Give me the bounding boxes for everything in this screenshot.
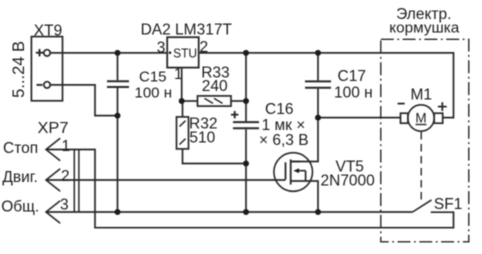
svg-text:3: 3 bbox=[157, 39, 166, 56]
junction dot adj node left bbox=[179, 98, 185, 104]
regulator DA2 box bbox=[167, 37, 199, 67]
capacitor C16 plus sign bbox=[231, 111, 238, 118]
svg-text:240: 240 bbox=[202, 78, 228, 95]
wire R33 to output node bbox=[231, 100, 246, 102]
resistor R32 body bbox=[177, 117, 189, 149]
wire common rail XP7 pin3 to SF1 bbox=[46, 211, 413, 213]
capacitor C16 plates bbox=[233, 122, 259, 128]
svg-text:510: 510 bbox=[189, 129, 215, 146]
capacitor C15 top stub wire bbox=[117, 53, 119, 80]
svg-text:× 6,3 В: × 6,3 В bbox=[259, 132, 309, 149]
svg-text:100 н: 100 н bbox=[334, 85, 373, 102]
junction dot common rail / C16 branch bbox=[243, 209, 249, 215]
svg-text:SF1: SF1 bbox=[434, 196, 462, 213]
cable line b bbox=[78, 150, 80, 213]
svg-text:3: 3 bbox=[60, 196, 69, 213]
capacitor C17 bottom wire to VT5 drain bbox=[291, 89, 318, 162]
svg-text:100 н: 100 н bbox=[135, 84, 172, 101]
svg-text:5...24 В: 5...24 В bbox=[10, 41, 28, 98]
junction dot output rail / C16 branch bbox=[243, 50, 249, 56]
XP7 pin 1 chevron bbox=[46, 138, 60, 161]
svg-text:2: 2 bbox=[61, 168, 70, 185]
svg-text:C17: C17 bbox=[338, 68, 366, 85]
capacitor C17 plates bbox=[305, 81, 331, 87]
junction dot XT9 minus / C15 bbox=[115, 113, 121, 119]
wire motor feed node to M1 left terminal bbox=[318, 117, 401, 119]
switch SF1 arm bbox=[413, 200, 432, 212]
wire output rail DA2 pin2 to motor plus bbox=[199, 53, 454, 118]
motor M1 circle bbox=[408, 105, 434, 131]
M1 left brush block bbox=[401, 113, 408, 123]
svg-text:Общ.: Общ. bbox=[1, 199, 39, 216]
XT9 pin - socket bbox=[44, 82, 50, 88]
VT5 arrowhead bbox=[293, 168, 299, 173]
svg-text:STU: STU bbox=[173, 46, 197, 61]
XT9 pin + socket bbox=[44, 50, 50, 56]
svg-text:M: M bbox=[415, 111, 426, 126]
svg-text:кормушка: кормушка bbox=[389, 21, 460, 37]
junction dot motor feed / C17 bbox=[315, 115, 321, 121]
VT5 drain tap bbox=[291, 161, 300, 163]
svg-text:1: 1 bbox=[62, 138, 71, 155]
wire R32 bottom to C16 node bbox=[183, 149, 247, 164]
VT5 source tap bbox=[291, 181, 318, 212]
XT9 minus sign bbox=[37, 84, 43, 86]
R33 power hatches bbox=[205, 98, 223, 103]
wire DA2 pin1 down bbox=[181, 68, 183, 101]
XT9 plus sign bbox=[36, 49, 43, 56]
wire output rail down to C17 bbox=[317, 53, 319, 81]
capacitor C15 bottom wire to common rail bbox=[117, 88, 119, 212]
junction dot input rail / C15 bbox=[115, 50, 121, 56]
junction dot output rail / C17 branch bbox=[315, 50, 321, 56]
connector XT9 body bbox=[31, 37, 62, 101]
junction dot common rail / C15 branch bbox=[115, 209, 121, 215]
M1 plus sign bbox=[438, 102, 447, 111]
M1 minus sign bbox=[398, 103, 405, 105]
M1 letter underline bbox=[416, 124, 427, 126]
junction dot common rail / VT5 source bbox=[315, 209, 321, 215]
R32 power hatches bbox=[180, 121, 186, 145]
VT5 body arrow bbox=[298, 171, 306, 181]
svg-text:2N7000: 2N7000 bbox=[321, 172, 376, 189]
junction dot R32 / C16 bbox=[243, 161, 249, 167]
svg-text:2: 2 bbox=[200, 39, 209, 56]
DA2 internal pin dot bbox=[169, 51, 172, 54]
transistor VT5 circle bbox=[274, 153, 313, 192]
svg-text:C16: C16 bbox=[265, 101, 293, 118]
capacitor C16 bottom wire bbox=[245, 129, 247, 212]
svg-text:C15: C15 bbox=[139, 69, 167, 86]
XP7 pin 3 chevron bbox=[46, 201, 60, 224]
svg-text:Двиг.: Двиг. bbox=[2, 169, 37, 186]
svg-text:M1: M1 bbox=[411, 86, 433, 103]
VT5 gate electrode bbox=[285, 162, 287, 179]
VT5 channel bbox=[290, 159, 292, 184]
capacitor C15 plates bbox=[107, 81, 129, 87]
M1 right brush block bbox=[434, 113, 443, 123]
wire adj node to R33 bbox=[182, 100, 198, 102]
junction dot adj node right bbox=[243, 98, 249, 104]
feeder boundary dash-dot box bbox=[381, 39, 469, 242]
wire XT9 minus to ground node bbox=[50, 85, 117, 116]
mechanical link dashed motor to SF1 bbox=[420, 132, 422, 201]
cable line a bbox=[73, 150, 75, 213]
wire Stop line XP7 pin1 around bottom to SF1 contact bbox=[46, 150, 454, 228]
svg-text:DA2 LM317T: DA2 LM317T bbox=[141, 22, 233, 39]
svg-text:Стоп: Стоп bbox=[3, 140, 38, 157]
resistor R33 body bbox=[198, 96, 232, 106]
wire adj node down to R32 bbox=[182, 101, 184, 117]
wire output rail down to C16 bbox=[245, 53, 247, 121]
wire Dvig. line XP7 pin2 to VT5 gate bbox=[46, 179, 286, 181]
wire input rail XT9+ to DA2 pin3 bbox=[50, 52, 167, 54]
svg-text:XT9: XT9 bbox=[34, 22, 62, 39]
XP7 pin 2 chevron bbox=[46, 169, 60, 192]
svg-text:XP7: XP7 bbox=[38, 120, 69, 137]
